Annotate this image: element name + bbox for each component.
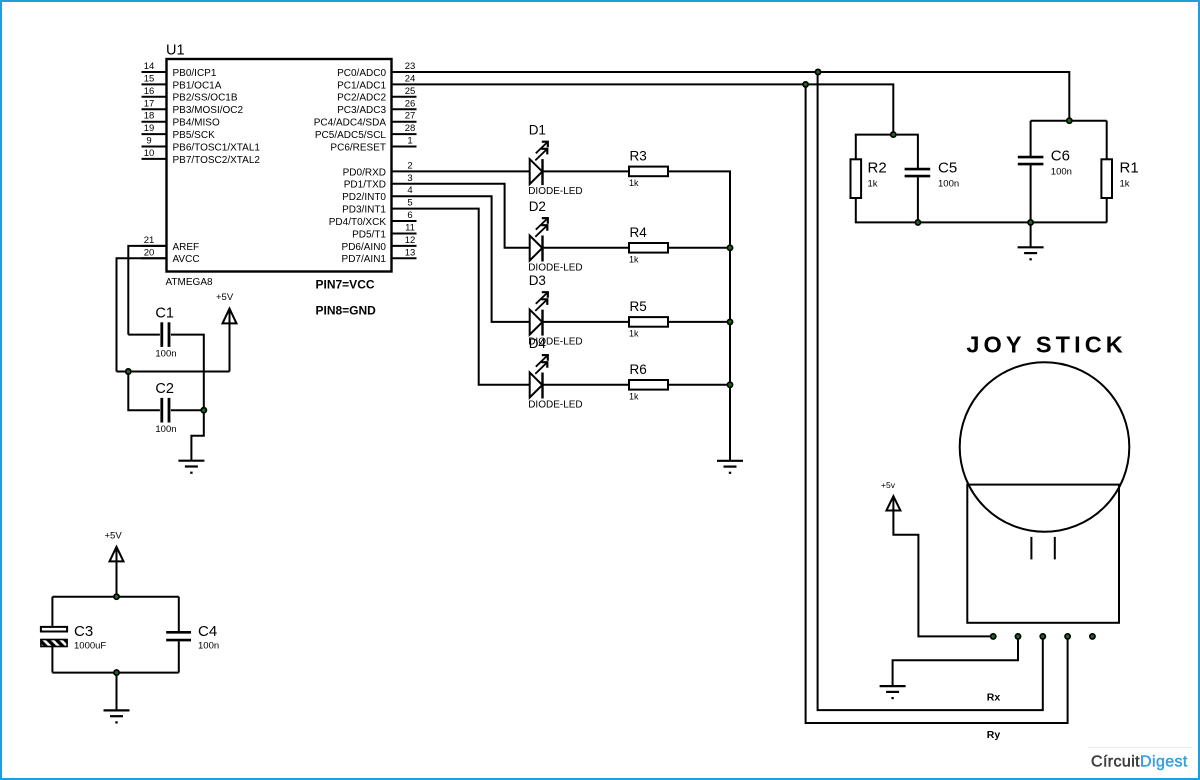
wire C2 right lead (171, 409, 204, 411)
svg-text:PC6/RESET: PC6/RESET (330, 142, 386, 153)
svg-text:14: 14 (144, 61, 155, 72)
ground at C2 (178, 461, 204, 473)
LED D3 (528, 273, 582, 348)
svg-text:16: 16 (144, 86, 155, 97)
svg-text:100n: 100n (155, 349, 176, 360)
svg-text:PIN7=VCC: PIN7=VCC (316, 278, 375, 292)
ground at LED bus (717, 461, 743, 473)
wire C2 left lead (128, 372, 160, 411)
svg-text:PB1/OC1A: PB1/OC1A (173, 80, 222, 91)
svg-text:CírcuitDigest: CírcuitDigest (1091, 754, 1188, 771)
wire D2 cathode to R4 (543, 247, 630, 249)
svg-text:100n: 100n (938, 178, 959, 189)
wire C6 bottom lead (1030, 165, 1032, 222)
svg-text:R4: R4 (630, 225, 648, 240)
junction ADC1 entry at R2/C5 top rail (891, 132, 896, 137)
wire C2 to ground (191, 410, 203, 461)
svg-text:DIODE-LED: DIODE-LED (528, 186, 582, 197)
wire net ADC1: pin 24 to R2/C5 block (417, 84, 894, 134)
svg-text:28: 28 (405, 123, 416, 134)
wire R3 to ground bus (668, 171, 730, 460)
svg-text:ATMEGA8: ATMEGA8 (166, 277, 213, 288)
svg-text:15: 15 (144, 73, 155, 84)
svg-text:PD1/TXD: PD1/TXD (344, 180, 386, 191)
junction AVCC rail at C2 branch (126, 369, 131, 374)
wire C1 left lead (128, 334, 160, 336)
svg-text:24: 24 (405, 73, 416, 84)
wire C4 top lead (178, 597, 180, 631)
svg-text:+5V: +5V (105, 531, 123, 542)
svg-text:100n: 100n (155, 424, 176, 435)
wire R4 to ground bus (668, 247, 730, 249)
pin 16 PB2/SS/OC1B stub (142, 86, 238, 104)
pin 1 PC6/RESET stub (330, 136, 416, 154)
svg-text:PC2/ADC2: PC2/ADC2 (337, 93, 386, 104)
svg-text:1k: 1k (868, 178, 878, 189)
resistor R2 1k (851, 159, 887, 198)
joystick pin 4 pad (1065, 634, 1070, 639)
junction bottom rail at C5 (915, 220, 920, 225)
svg-text:PB6/TOSC1/XTAL1: PB6/TOSC1/XTAL1 (173, 142, 261, 153)
svg-text:R6: R6 (630, 362, 647, 377)
wire R2 top lead (855, 135, 857, 160)
wire C3/C4 bottom rail (52, 672, 178, 674)
joystick pin 3 pad (1040, 634, 1045, 639)
svg-text:1000uF: 1000uF (74, 641, 106, 652)
wire C5 top lead (917, 135, 919, 168)
svg-text:1k: 1k (629, 178, 639, 188)
svg-text:C4: C4 (198, 623, 217, 640)
wire pin 3 to D2 anode (417, 184, 530, 248)
pin 14 PB0/ICP1 stub (142, 61, 217, 79)
wire +5V arrow shaft to C3/C4 rail (116, 560, 118, 597)
svg-text:18: 18 (144, 111, 155, 122)
ground at joystick (880, 686, 906, 698)
svg-text:DIODE-LED: DIODE-LED (528, 399, 582, 410)
svg-text:1: 1 (407, 136, 412, 147)
wire D1 cathode to R3 (543, 170, 630, 172)
wire R6 to ground bus (668, 384, 730, 386)
LED D1 (528, 122, 582, 197)
svg-text:17: 17 (144, 98, 155, 109)
svg-text:C1: C1 (155, 305, 174, 321)
pin 24 PC1/ADC1 stub (337, 73, 416, 91)
pin 11 PD5/T1 stub (352, 223, 416, 241)
LED D2 (528, 199, 582, 274)
LED D4 (528, 336, 582, 411)
wire shared bottom rail R2/C5/C6/R1 (855, 221, 1107, 223)
pin 12 PD6/AIN0 stub (342, 235, 417, 253)
svg-text:1k: 1k (629, 254, 639, 264)
svg-text:11: 11 (405, 223, 415, 234)
svg-text:21: 21 (144, 235, 155, 246)
junction on ADC0 net at Rx riser (815, 69, 820, 74)
wire R1 bottom lead (1106, 198, 1108, 222)
svg-text:PC0/ADC0: PC0/ADC0 (337, 68, 386, 79)
svg-text:C3: C3 (74, 623, 93, 640)
+5v power arrow at joystick (886, 496, 900, 511)
pin 23 PC0/ADC0 stub (337, 61, 416, 79)
svg-text:100n: 100n (198, 641, 219, 652)
svg-text:+5v: +5v (881, 480, 896, 490)
wire bottom rail to ground (116, 673, 118, 711)
svg-text:PD2/INT0: PD2/INT0 (342, 192, 386, 203)
svg-text:10: 10 (144, 148, 155, 159)
wire C3/C4 top rail (52, 596, 178, 598)
svg-text:AVCC: AVCC (173, 254, 200, 265)
svg-text:PB4/MISO: PB4/MISO (173, 118, 220, 129)
svg-text:23: 23 (405, 61, 416, 72)
svg-text:C2: C2 (155, 381, 174, 397)
wire pin 2 to D1 anode (417, 170, 530, 172)
wire joystick pin 2 to ground (893, 636, 1018, 686)
pin 20 AVCC stub (142, 247, 200, 265)
svg-text:100n: 100n (1051, 167, 1072, 178)
wire C6 top lead (1030, 121, 1032, 156)
svg-text:PB7/TOSC2/XTAL2: PB7/TOSC2/XTAL2 (173, 155, 261, 166)
wire AREF pin 21 to C1 (128, 246, 166, 335)
svg-text:D1: D1 (529, 122, 546, 137)
svg-text:PD5/T1: PD5/T1 (352, 229, 386, 240)
wire R2 bottom lead (855, 198, 857, 222)
+5V power arrow near C1 (223, 309, 237, 324)
wire C4 bottom lead (178, 642, 180, 673)
wire R2/C5 top rail (855, 134, 919, 136)
svg-text:C6: C6 (1051, 148, 1070, 165)
wire R5 to ground bus (668, 321, 730, 323)
pin 19 PB5/SCK stub (142, 123, 216, 141)
capacitor C6 100n (1018, 148, 1072, 178)
pin 25 PC2/ADC2 stub (337, 86, 416, 104)
pin 6 PD4/T0/XCK stub (329, 210, 417, 228)
junction C3/C4 bottom rail (114, 670, 119, 675)
resistor R4 1k (629, 225, 668, 264)
joystick body rectangle (967, 485, 1119, 623)
svg-text:2: 2 (407, 160, 412, 171)
svg-text:U1: U1 (166, 43, 185, 59)
capacitor C3 1000uF electrolytic (41, 623, 107, 652)
wire net Rx: joystick pin 3 to ADC0 (818, 72, 1043, 710)
svg-text:R1: R1 (1120, 160, 1139, 177)
junction bus at R4 (727, 245, 732, 250)
svg-text:9: 9 (146, 136, 151, 147)
svg-text:PC5/ADC5/SCL: PC5/ADC5/SCL (315, 130, 387, 141)
svg-text:PB0/ICP1: PB0/ICP1 (173, 68, 217, 79)
junction ADC0 entry at C6/R1 top rail (1067, 118, 1072, 123)
resistor R6 1k (629, 362, 668, 402)
wire pin 4 to D3 anode (417, 196, 530, 322)
joystick knob circle (960, 362, 1130, 532)
svg-text:R5: R5 (630, 299, 647, 314)
wire D3 cathode to R5 (543, 321, 630, 323)
pin 27 PC4/ADC4/SDA stub (314, 111, 417, 129)
wire +5V arrow shaft to rail (229, 322, 231, 372)
wire net ADC0: pin 23 to C6/R1 block (417, 72, 1070, 121)
svg-text:25: 25 (405, 86, 416, 97)
wire C1 right lead down to C2 (171, 335, 204, 411)
wire C5 bottom lead (917, 177, 919, 222)
resistor R1 1k (1101, 159, 1138, 198)
svg-text:13: 13 (405, 247, 416, 258)
resistor R5 1k (629, 299, 668, 339)
joystick stem ticks (1031, 537, 1054, 560)
CircuitDigest logo separator (1088, 747, 1192, 749)
svg-text:PC1/ADC1: PC1/ADC1 (337, 80, 386, 91)
wire D4 cathode to R6 (543, 384, 630, 386)
svg-text:JOY STICK: JOY STICK (966, 332, 1127, 358)
capacitor C2 100n (155, 381, 176, 435)
svg-text:D2: D2 (529, 199, 546, 214)
svg-text:DIODE-LED: DIODE-LED (528, 262, 582, 273)
junction on ADC1 net at Ry riser (803, 82, 808, 87)
svg-text:Rx: Rx (987, 692, 1001, 704)
pin 9 PB6/TOSC1/XTAL1 stub (142, 136, 261, 154)
resistor R3 1k (629, 148, 668, 188)
junction bus at R5 (727, 319, 732, 324)
svg-text:19: 19 (144, 123, 155, 134)
wire +5v to joystick pin 1 (893, 509, 993, 636)
wire C6 rail to ground (1030, 222, 1032, 247)
wire C6/R1 top rail (1031, 120, 1107, 122)
svg-text:26: 26 (405, 98, 416, 109)
pin 17 PB3/MOSI/OC2 stub (142, 98, 244, 116)
wire C3 bottom lead (51, 647, 53, 673)
wire R1 top lead (1106, 121, 1108, 160)
pin 5 PD3/INT1 stub (342, 198, 416, 216)
svg-text:PD6/AIN0: PD6/AIN0 (342, 242, 387, 253)
pin 3 PD1/TXD stub (344, 173, 417, 191)
svg-text:C5: C5 (938, 160, 957, 177)
svg-text:+5V: +5V (216, 292, 234, 303)
pin 21 AREF stub (142, 235, 200, 253)
wire net Ry: joystick pin 4 to ADC1 (806, 84, 1068, 723)
svg-text:R2: R2 (868, 160, 887, 177)
svg-text:PD7/AIN1: PD7/AIN1 (342, 254, 387, 265)
pin 4 PD2/INT0 stub (342, 185, 416, 203)
pin 28 PC5/ADC5/SCL stub (315, 123, 417, 141)
pin 13 PD7/AIN1 stub (342, 247, 417, 265)
junction C1/C2 right leads (201, 408, 206, 413)
svg-text:5: 5 (407, 198, 412, 209)
ground at C3/C4 (104, 710, 130, 722)
svg-text:12: 12 (405, 235, 416, 246)
svg-text:6: 6 (407, 210, 412, 221)
svg-text:4: 4 (407, 185, 412, 196)
svg-text:AREF: AREF (173, 242, 200, 253)
ground at C6 (1018, 247, 1044, 259)
svg-text:PIN8=GND: PIN8=GND (316, 304, 377, 318)
pin 2 PD0/RXD stub (343, 160, 417, 178)
junction bus at R6 (727, 382, 732, 387)
svg-text:PD3/INT1: PD3/INT1 (342, 205, 386, 216)
svg-text:1k: 1k (1120, 178, 1130, 189)
junction C3/C4 top rail (114, 594, 119, 599)
svg-text:PB3/MOSI/OC2: PB3/MOSI/OC2 (173, 105, 244, 116)
wire C3 top lead (51, 597, 53, 626)
svg-text:27: 27 (405, 111, 416, 122)
wire pin 5 to D4 anode (417, 209, 530, 385)
capacitor C5 100n (905, 160, 960, 190)
joystick pin 5 pad (1090, 634, 1095, 639)
joystick pin 1 pad (991, 634, 996, 639)
svg-text:3: 3 (407, 173, 412, 184)
svg-text:PD0/RXD: PD0/RXD (343, 167, 386, 178)
wire AVCC pin 20 to +5V rail (117, 258, 167, 371)
svg-text:PB5/SCK: PB5/SCK (173, 130, 216, 141)
svg-text:Ry: Ry (987, 729, 1001, 741)
svg-text:1k: 1k (629, 391, 639, 401)
svg-text:1k: 1k (629, 328, 639, 338)
svg-text:20: 20 (144, 247, 155, 258)
wire +5V rail (117, 371, 230, 373)
svg-text:PB2/SS/OC1B: PB2/SS/OC1B (173, 93, 238, 104)
capacitor C1 100n (155, 305, 176, 359)
pin 18 PB4/MISO stub (142, 111, 220, 129)
+5V power arrow at C3/C4 (110, 547, 124, 562)
svg-text:PC4/ADC4/SDA: PC4/ADC4/SDA (314, 118, 387, 129)
svg-text:D3: D3 (529, 273, 546, 288)
pin 26 PC3/ADC3 stub (337, 98, 416, 116)
joystick pin 2 pad (1015, 634, 1020, 639)
capacitor C4 100n (166, 623, 219, 652)
IC U1 ATMEGA8 body (167, 59, 392, 272)
svg-text:D4: D4 (529, 336, 547, 351)
svg-text:PD4/T0/XCK: PD4/T0/XCK (329, 217, 387, 228)
pin 10 PB7/TOSC2/XTAL2 stub (142, 148, 261, 166)
svg-text:R3: R3 (630, 148, 647, 163)
svg-text:PC3/ADC3: PC3/ADC3 (337, 105, 386, 116)
junction bottom rail at C6 (1028, 220, 1033, 225)
pin 15 PB1/OC1A stub (142, 73, 222, 91)
